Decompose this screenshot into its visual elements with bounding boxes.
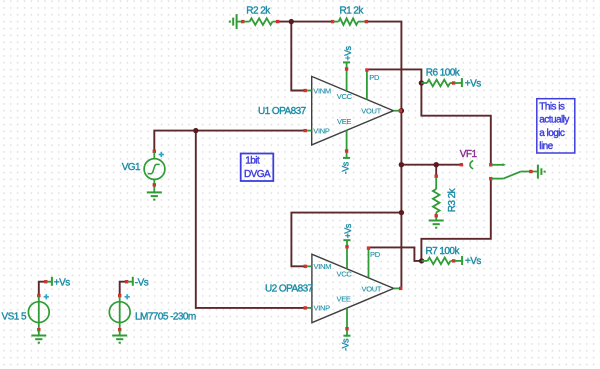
svg-text:VINM: VINM [313, 86, 331, 95]
svg-text:VEE: VEE [337, 117, 351, 126]
svg-text:U2 OPA837: U2 OPA837 [265, 283, 314, 294]
svg-text:VCC: VCC [337, 269, 353, 278]
svg-text:R2 2k: R2 2k [246, 6, 271, 17]
svg-text:VINP: VINP [313, 126, 330, 135]
svg-text:DVGA: DVGA [244, 169, 271, 180]
svg-text:VOUT: VOUT [362, 284, 382, 293]
svg-text:VINM: VINM [314, 262, 332, 271]
svg-text:VOUT: VOUT [361, 107, 381, 116]
svg-text:line: line [539, 141, 553, 152]
svg-text:VINP: VINP [314, 304, 331, 313]
svg-text:VF1: VF1 [460, 149, 478, 160]
svg-text:+Vs: +Vs [54, 278, 70, 289]
svg-text:VCC: VCC [337, 92, 353, 101]
svg-text:PD: PD [369, 73, 380, 82]
svg-text:+Vs: +Vs [465, 256, 481, 267]
svg-text:a logic: a logic [539, 128, 565, 139]
svg-text:-Vs: -Vs [341, 338, 351, 351]
svg-text:VG1: VG1 [122, 162, 141, 173]
svg-text:-Vs: -Vs [135, 278, 149, 289]
svg-text:1bit: 1bit [245, 156, 260, 167]
svg-text:This is: This is [539, 102, 565, 113]
svg-text:R1 2k: R1 2k [340, 6, 365, 17]
svg-text:LM7705 -230m: LM7705 -230m [135, 311, 196, 322]
svg-text:R7 100k: R7 100k [426, 246, 461, 257]
svg-text:+Vs: +Vs [343, 45, 353, 60]
svg-text:VEE: VEE [337, 295, 351, 304]
svg-text:R6 100k: R6 100k [426, 68, 461, 79]
svg-text:VS1 5: VS1 5 [2, 311, 27, 322]
svg-text:U1 OPA837: U1 OPA837 [258, 106, 307, 117]
svg-text:+Vs: +Vs [343, 223, 353, 238]
svg-text:-Vs: -Vs [340, 161, 350, 174]
svg-text:PD: PD [370, 250, 381, 259]
svg-text:+Vs: +Vs [465, 78, 481, 89]
svg-text:actually: actually [539, 115, 569, 126]
svg-text:R3 2k: R3 2k [447, 187, 458, 212]
